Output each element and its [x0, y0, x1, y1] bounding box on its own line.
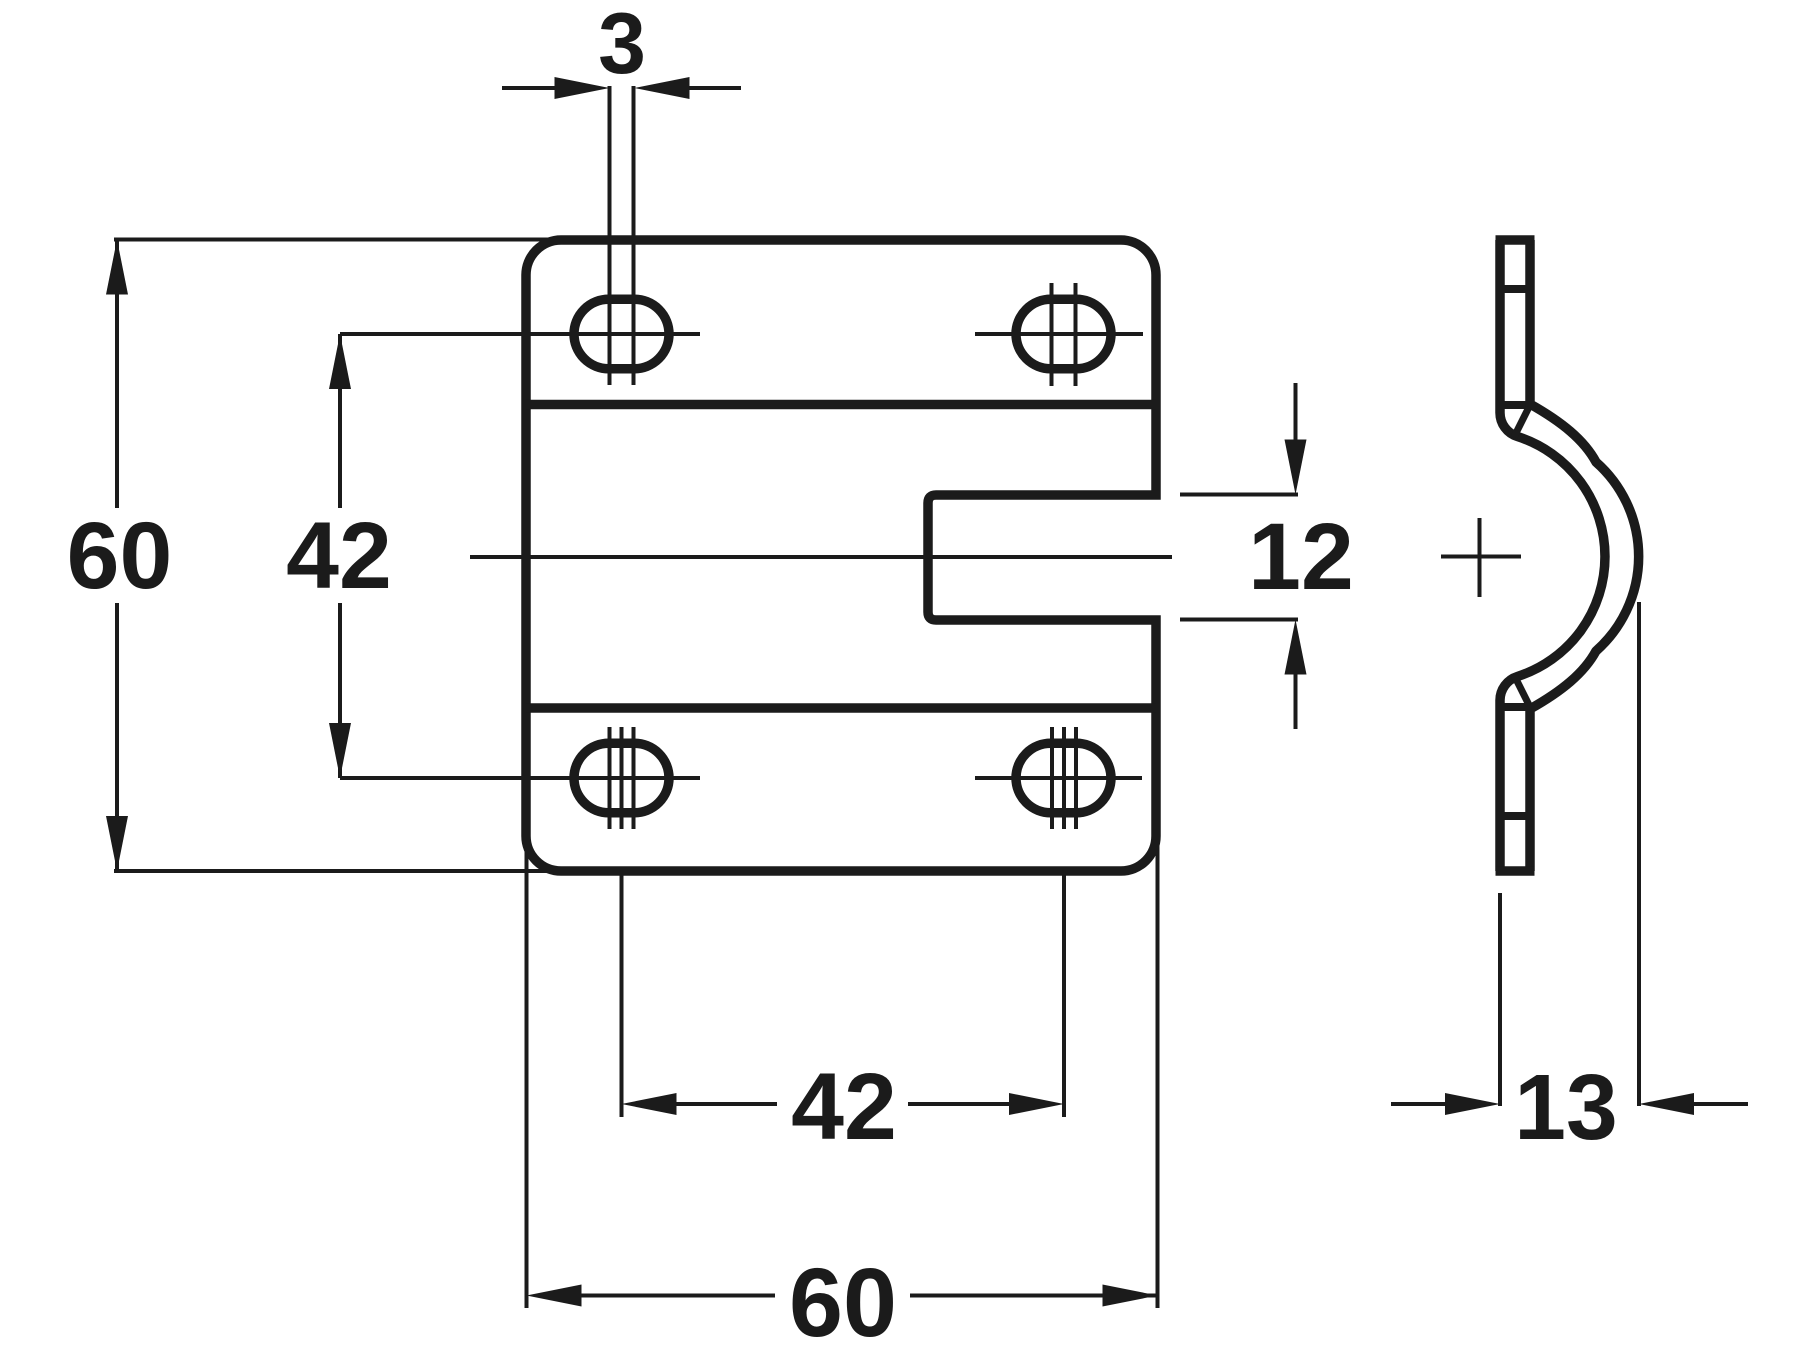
svg-text:60: 60	[67, 503, 173, 609]
side view: outer (left) face profile with bulge	[1500, 240, 1605, 871]
dimension 3 (top): dimension line and arrows	[502, 86, 556, 90]
side view: corner-radius tick (top)	[1500, 285, 1530, 293]
side view: bend-start tick (bottom)	[1500, 703, 1530, 711]
side view: bend-start tick (top)	[1500, 401, 1530, 409]
svg-text:13: 13	[1514, 1055, 1617, 1159]
svg-text:42: 42	[286, 503, 392, 609]
svg-text:3: 3	[598, 0, 646, 92]
hole bottom-right	[1016, 743, 1111, 813]
side view: bottom end cap	[1496, 866, 1535, 876]
side view: bend diagonal tick (bottom)	[1514, 675, 1529, 705]
dimension 60 (left): dimension line with arrows	[115, 240, 119, 509]
side view: corner-radius tick (bottom)	[1500, 812, 1530, 820]
centerline hole top-right (horizontal)	[975, 332, 1143, 336]
hole bottom-left	[574, 743, 669, 813]
centerline hole top-left (horizontal, doubles as 42-dim extension)	[340, 332, 700, 336]
vertical lines hole bottom-right (center + offsets)	[1050, 727, 1054, 829]
svg-text:42: 42	[791, 1054, 897, 1160]
dimension 13 (side view): extension lines	[1498, 893, 1502, 1106]
side view: top end cap	[1496, 235, 1535, 245]
vertical extension lines through hole top-left (3 mm offset lines)	[608, 86, 612, 385]
side view: inner (right) face profile with bulge	[1530, 240, 1639, 871]
svg-text:12: 12	[1248, 504, 1354, 610]
dimension 60 (left): extension lines	[114, 238, 560, 242]
svg-text:60: 60	[789, 1248, 897, 1350]
dimension 42 (bottom): dimension line with arrows	[622, 1093, 677, 1115]
dimension 60 (bottom): dimension line with arrows	[527, 1285, 582, 1307]
hole top-left	[574, 299, 669, 369]
vertical lines hole bottom-left (center + offsets)	[608, 727, 612, 829]
slot extension lines (right of plate)	[1180, 493, 1298, 497]
side view: bend diagonal tick (top)	[1514, 407, 1529, 437]
hole top-right	[1016, 299, 1111, 369]
dimension 42 (bottom): extension lines from bottom holes	[620, 872, 624, 1117]
vertical offset lines hole top-right	[1050, 283, 1054, 386]
dimension 42 (left): dimension line with arrows	[338, 334, 342, 508]
dimension 13: dimension line with arrows	[1391, 1102, 1446, 1106]
dimension 12 (slot): arrow lines	[1294, 383, 1298, 441]
plate inner horizontal line (upper)	[526, 400, 1156, 410]
horizontal centerline of slot	[470, 555, 1172, 559]
plate outline (front view, 60x60 with right-side slot)	[526, 240, 1156, 871]
plate inner horizontal line (lower)	[526, 703, 1156, 713]
centerline hole bottom-left (horizontal, doubles as 42-dim extension)	[340, 776, 700, 780]
centerline hole bottom-right (horizontal)	[975, 776, 1142, 780]
dimension 60 (bottom): extension lines from plate edges	[525, 838, 529, 1308]
side view: center cross mark	[1441, 555, 1521, 559]
